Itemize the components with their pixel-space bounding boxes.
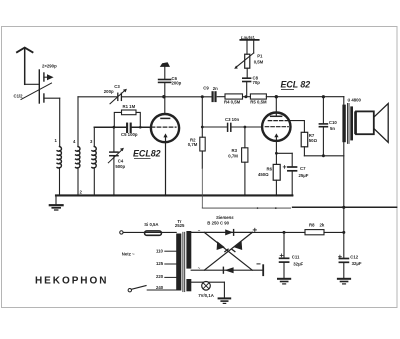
svg-text:ECL82: ECL82: [133, 149, 161, 159]
svg-text:R8: R8: [309, 223, 315, 228]
svg-text:ü 4800: ü 4800: [348, 97, 362, 102]
svg-text:Si 0,5A: Si 0,5A: [144, 222, 158, 227]
svg-text:ECL 82: ECL 82: [281, 79, 311, 89]
svg-text:220: 220: [156, 274, 164, 279]
svg-text:C1/2: C1/2: [14, 94, 24, 99]
svg-text:32µF: 32µF: [352, 261, 362, 266]
svg-text:125: 125: [156, 261, 164, 266]
svg-text:5n: 5n: [330, 126, 335, 131]
svg-text:450Ω: 450Ω: [258, 172, 269, 177]
svg-text:Netz ~: Netz ~: [122, 251, 135, 256]
svg-text:Lautst.: Lautst.: [241, 35, 255, 40]
svg-text:200p: 200p: [104, 89, 114, 94]
svg-text:R5 0,5M: R5 0,5M: [250, 100, 267, 105]
svg-text:C4: C4: [118, 158, 124, 163]
svg-text:2525: 2525: [175, 223, 185, 228]
svg-text:2×290p: 2×290p: [42, 64, 57, 69]
svg-text:500p: 500p: [115, 164, 125, 169]
svg-text:P1: P1: [257, 53, 263, 58]
svg-text:C12: C12: [350, 255, 358, 260]
svg-text:32µF: 32µF: [293, 262, 303, 267]
svg-text:C11: C11: [292, 254, 300, 259]
svg-text:240: 240: [156, 285, 164, 290]
svg-text:R1 1M: R1 1M: [123, 104, 136, 109]
svg-text:R3: R3: [232, 148, 238, 153]
svg-text:R4 0,5M: R4 0,5M: [224, 100, 241, 105]
svg-text:2n: 2n: [213, 86, 218, 91]
svg-text:110: 110: [156, 248, 164, 253]
svg-text:C9: C9: [203, 86, 209, 91]
svg-text:C10: C10: [329, 120, 337, 125]
svg-text:C3: C3: [114, 84, 120, 89]
svg-text:C3 10n: C3 10n: [225, 117, 239, 122]
svg-text:0,5M: 0,5M: [254, 60, 264, 65]
svg-text:C7: C7: [300, 166, 306, 171]
svg-text:0,7M: 0,7M: [228, 154, 238, 159]
svg-text:70p: 70p: [253, 80, 261, 85]
svg-text:7V/0,1A: 7V/0,1A: [198, 293, 214, 298]
svg-text:25µF: 25µF: [299, 173, 309, 178]
svg-text:0,7M: 0,7M: [188, 142, 198, 147]
svg-text:R6: R6: [267, 166, 273, 171]
svg-text:C5 100p: C5 100p: [121, 132, 138, 137]
svg-text:50Ω: 50Ω: [309, 138, 318, 143]
svg-text:B 250 C 90: B 250 C 90: [207, 220, 229, 225]
svg-text:2k: 2k: [320, 223, 325, 228]
svg-text:HEKOPHON: HEKOPHON: [35, 275, 108, 286]
svg-text:200p: 200p: [172, 81, 182, 86]
